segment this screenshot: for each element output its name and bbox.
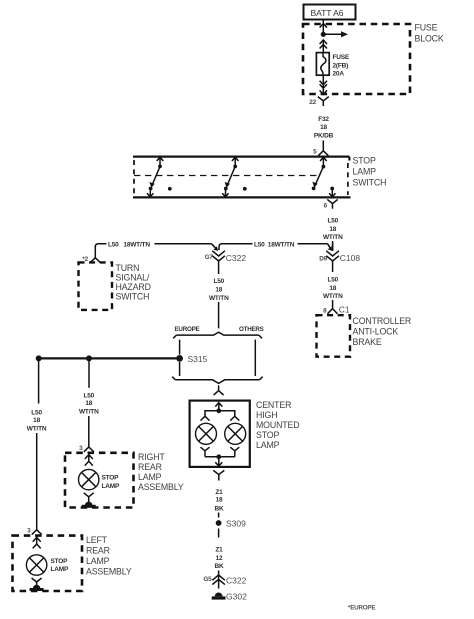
svg-text:D9: D9 <box>319 256 327 263</box>
svg-text:G5: G5 <box>203 576 212 583</box>
switch 2 free contact dot <box>243 187 247 191</box>
connector G5 C322 <box>218 571 220 589</box>
svg-text:REAR: REAR <box>86 545 110 555</box>
switch contact 1 <box>158 165 162 169</box>
splice S309 <box>216 520 222 526</box>
fuse block dashed box <box>303 24 410 94</box>
switch 3 output dot <box>330 187 334 191</box>
svg-text:18: 18 <box>329 226 336 233</box>
thick branch wire from S315 to rear lamps <box>39 357 180 359</box>
svg-text:STOP: STOP <box>256 430 279 440</box>
svg-text:STOP: STOP <box>51 558 69 565</box>
double chevron into left lamp <box>33 537 41 548</box>
svg-text:C322: C322 <box>226 253 247 263</box>
left wire down to left rear lamp <box>38 358 40 403</box>
svg-text:TURN: TURN <box>116 263 140 273</box>
svg-text:L50 18WT/TN: L50 18WT/TN <box>254 242 295 249</box>
svg-text:ANTI-LOCK: ANTI-LOCK <box>353 327 399 337</box>
chevron up at fuse block top edge <box>320 24 327 28</box>
wire to stop lamp switch pin 5 <box>322 141 324 151</box>
right lamp ground <box>84 493 94 502</box>
svg-text:12: 12 <box>216 555 223 562</box>
svg-text:HIGH: HIGH <box>256 410 277 420</box>
svg-text:L50: L50 <box>327 276 338 283</box>
svg-text:L50: L50 <box>83 393 94 400</box>
svg-text:18: 18 <box>320 124 327 131</box>
switch contact 2 <box>233 165 237 169</box>
top junction dot <box>216 408 221 413</box>
svg-text:LEFT: LEFT <box>86 535 108 545</box>
svg-text:WT/TN: WT/TN <box>27 425 47 432</box>
right rear lamp assembly dashed box <box>65 453 134 508</box>
branch wire left with label L50 18WT/TN <box>155 243 212 245</box>
svg-text:L50: L50 <box>31 410 42 417</box>
svg-text:FUSE: FUSE <box>333 54 350 61</box>
middle wire down to right rear lamp <box>88 358 90 387</box>
svg-text:22: 22 <box>309 99 316 106</box>
connector C108 (D9) <box>328 244 331 250</box>
svg-text:LAMP: LAMP <box>353 167 377 177</box>
svg-text:*EUROPE: *EUROPE <box>348 604 375 611</box>
svg-text:Z1: Z1 <box>215 546 223 553</box>
svg-text:ASSEMBLY: ASSEMBLY <box>86 566 132 576</box>
svg-text:CONTROLLER: CONTROLLER <box>353 316 412 326</box>
connector into center lamp <box>214 385 224 395</box>
svg-text:ASSEMBLY: ASSEMBLY <box>138 482 184 492</box>
turn signal / hazard switch dashed box <box>79 262 113 310</box>
S315 splice dot <box>176 355 183 362</box>
svg-text:WT/TN: WT/TN <box>79 408 99 415</box>
wire below C322 <box>218 261 220 274</box>
svg-text:LAMP: LAMP <box>51 566 69 573</box>
bottom junction dot <box>216 454 221 459</box>
left rear lamp assembly dashed box <box>13 536 83 591</box>
svg-text:LAMP: LAMP <box>86 556 110 566</box>
left lamp ground <box>32 578 42 586</box>
svg-text:MOUNTED: MOUNTED <box>256 420 299 430</box>
svg-text:PK/DB: PK/DB <box>314 133 334 140</box>
svg-text:SWITCH: SWITCH <box>116 292 150 302</box>
center right bulb <box>225 423 246 444</box>
svg-text:C1: C1 <box>339 305 350 315</box>
svg-text:EUROPE: EUROPE <box>175 326 200 333</box>
chevron down at fuse block bottom edge <box>320 90 327 94</box>
svg-text:18: 18 <box>85 400 92 407</box>
svg-text:L50: L50 <box>327 217 338 224</box>
entry arrow inside center box <box>215 403 222 409</box>
branch wire right with label L50 18WT/TN <box>221 243 253 245</box>
inner dashed line of switch <box>134 175 318 177</box>
loop bottom merge <box>172 377 263 384</box>
junction dot in fuse block <box>321 32 326 37</box>
svg-text:SIGNAL/: SIGNAL/ <box>116 272 150 282</box>
svg-text:2(FB): 2(FB) <box>333 62 349 69</box>
svg-text:CENTER: CENTER <box>256 400 291 410</box>
right stop lamp bulb <box>79 469 99 489</box>
svg-text:20A: 20A <box>333 71 345 78</box>
svg-text:L50: L50 <box>213 278 224 285</box>
svg-text:WT/TN: WT/TN <box>209 295 229 302</box>
fuse 2(FB) 20A <box>316 53 329 76</box>
junction dot middle <box>86 355 92 361</box>
svg-text:L50 18WT/TN: L50 18WT/TN <box>108 242 150 249</box>
S315 loop right branch <box>254 340 256 376</box>
feed arrow to other circuits <box>323 33 342 35</box>
bottom bus from bulbs <box>201 447 210 457</box>
switch contact 3 <box>322 165 326 169</box>
svg-text:18: 18 <box>329 285 336 292</box>
svg-text:STOP: STOP <box>353 156 376 166</box>
svg-text:BK: BK <box>215 506 224 513</box>
svg-text:FUSE: FUSE <box>415 23 438 33</box>
svg-text:BRAKE: BRAKE <box>353 337 382 347</box>
svg-text:18: 18 <box>216 496 223 503</box>
svg-text:BLOCK: BLOCK <box>415 34 444 44</box>
connector below center box <box>213 470 224 480</box>
svg-text:S309: S309 <box>226 519 246 529</box>
battery feed box BATT A6 <box>304 5 356 20</box>
turn signal drop wire (*2) <box>94 246 96 258</box>
svg-text:18: 18 <box>215 287 222 294</box>
svg-text:C322: C322 <box>226 575 247 585</box>
svg-text:WT/TN: WT/TN <box>323 234 343 241</box>
svg-text:STOP: STOP <box>102 475 120 482</box>
wire fuse to pin 22 <box>322 75 324 94</box>
double chevron up above fuse <box>320 40 327 49</box>
svg-text:G302: G302 <box>226 591 247 601</box>
svg-text:BATT A6: BATT A6 <box>311 8 344 18</box>
svg-text:OTHERS: OTHERS <box>239 326 264 333</box>
center high mounted stop lamp box <box>190 401 250 467</box>
wire split europe/others <box>173 332 262 338</box>
switch 1 free contact dot <box>168 187 172 191</box>
svg-text:18: 18 <box>33 417 40 424</box>
svg-text:RIGHT: RIGHT <box>138 452 165 462</box>
stop lamp switch box <box>133 157 351 198</box>
connector C322 (G7) <box>212 244 217 250</box>
svg-text:LAMP: LAMP <box>138 472 162 482</box>
svg-text:LAMP: LAMP <box>102 483 120 490</box>
svg-text:REAR: REAR <box>138 462 162 472</box>
svg-text:F32: F32 <box>318 116 329 123</box>
left stop lamp bulb <box>26 555 46 575</box>
S315 splice loop left branch <box>179 340 181 376</box>
wire below C108 <box>332 261 334 272</box>
svg-text:G7: G7 <box>205 254 214 261</box>
center left bulb <box>196 423 217 444</box>
top bus to both bulbs <box>205 411 235 415</box>
exit arrow of center box <box>215 457 222 466</box>
svg-text:LAMP: LAMP <box>256 440 280 450</box>
ground G302 <box>215 593 223 597</box>
double chevron down below fuse <box>320 81 327 88</box>
double chevron into right lamp <box>85 455 93 466</box>
svg-text:Z1: Z1 <box>215 489 223 496</box>
svg-text:WT/TN: WT/TN <box>323 293 343 300</box>
junction dot left <box>36 355 42 361</box>
svg-text:C108: C108 <box>340 253 361 263</box>
svg-text:BK: BK <box>215 563 224 570</box>
wire pin6 down to C108 <box>332 241 334 251</box>
svg-text:SWITCH: SWITCH <box>353 178 387 188</box>
svg-text:S315: S315 <box>188 354 208 364</box>
wire to S309 <box>218 513 220 518</box>
controller anti-lock brake dashed box <box>317 315 351 357</box>
svg-text:HAZARD: HAZARD <box>116 282 151 292</box>
wire BATT A6 to junction <box>322 20 324 34</box>
